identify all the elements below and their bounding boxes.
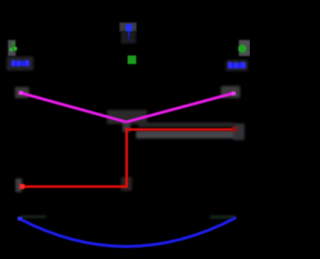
node glyph: blue arrow (top center) (126, 24, 133, 41)
edge: magenta right segment (126, 93, 233, 122)
artifact band below red top line (136, 131, 237, 139)
label text: left node (blue) (11, 60, 30, 66)
edge endpoint dot: magenta right (231, 92, 235, 96)
artifact smear above blue arc left (20, 216, 46, 219)
artifact smear below top node glyph (121, 32, 136, 44)
artifact box behind left label (7, 57, 34, 71)
artifact box at magenta right end (221, 86, 240, 98)
node glyph: green circle (right) (238, 45, 246, 53)
artifact smear above blue arc right (210, 216, 236, 219)
artifact smear around junction vertex (107, 110, 147, 124)
artifact box behind top node glyph (120, 23, 137, 32)
artifact box behind left node glyph (8, 40, 16, 56)
node glyph: green square (center top) (128, 56, 137, 65)
edge endpoint dot: magenta left (19, 91, 23, 95)
edge stub: red up from corner (125, 126, 127, 130)
artifact box behind right node glyph (239, 40, 250, 56)
artifact band above red top line (138, 123, 234, 128)
edge: blue arc (bottom) (19, 218, 236, 247)
artifact band below junction (123, 122, 131, 132)
artifact box behind right label (226, 60, 248, 71)
artifact box at red bottom corner (121, 177, 132, 191)
edge arrowhead: red left end (20, 184, 25, 189)
edge: magenta left segment (21, 93, 127, 122)
edge: red staircase path (21, 130, 236, 187)
artifact box at red right end (234, 124, 245, 141)
artifact box at magenta left end (15, 87, 29, 98)
label text: right node (blue) (228, 62, 246, 69)
edge endpoint dot: blue arc left (18, 217, 22, 221)
artifact box at red bottom-left end (16, 179, 23, 193)
edge arrowhead: red right end (232, 127, 238, 132)
node glyph: green marker (left) (10, 42, 18, 52)
